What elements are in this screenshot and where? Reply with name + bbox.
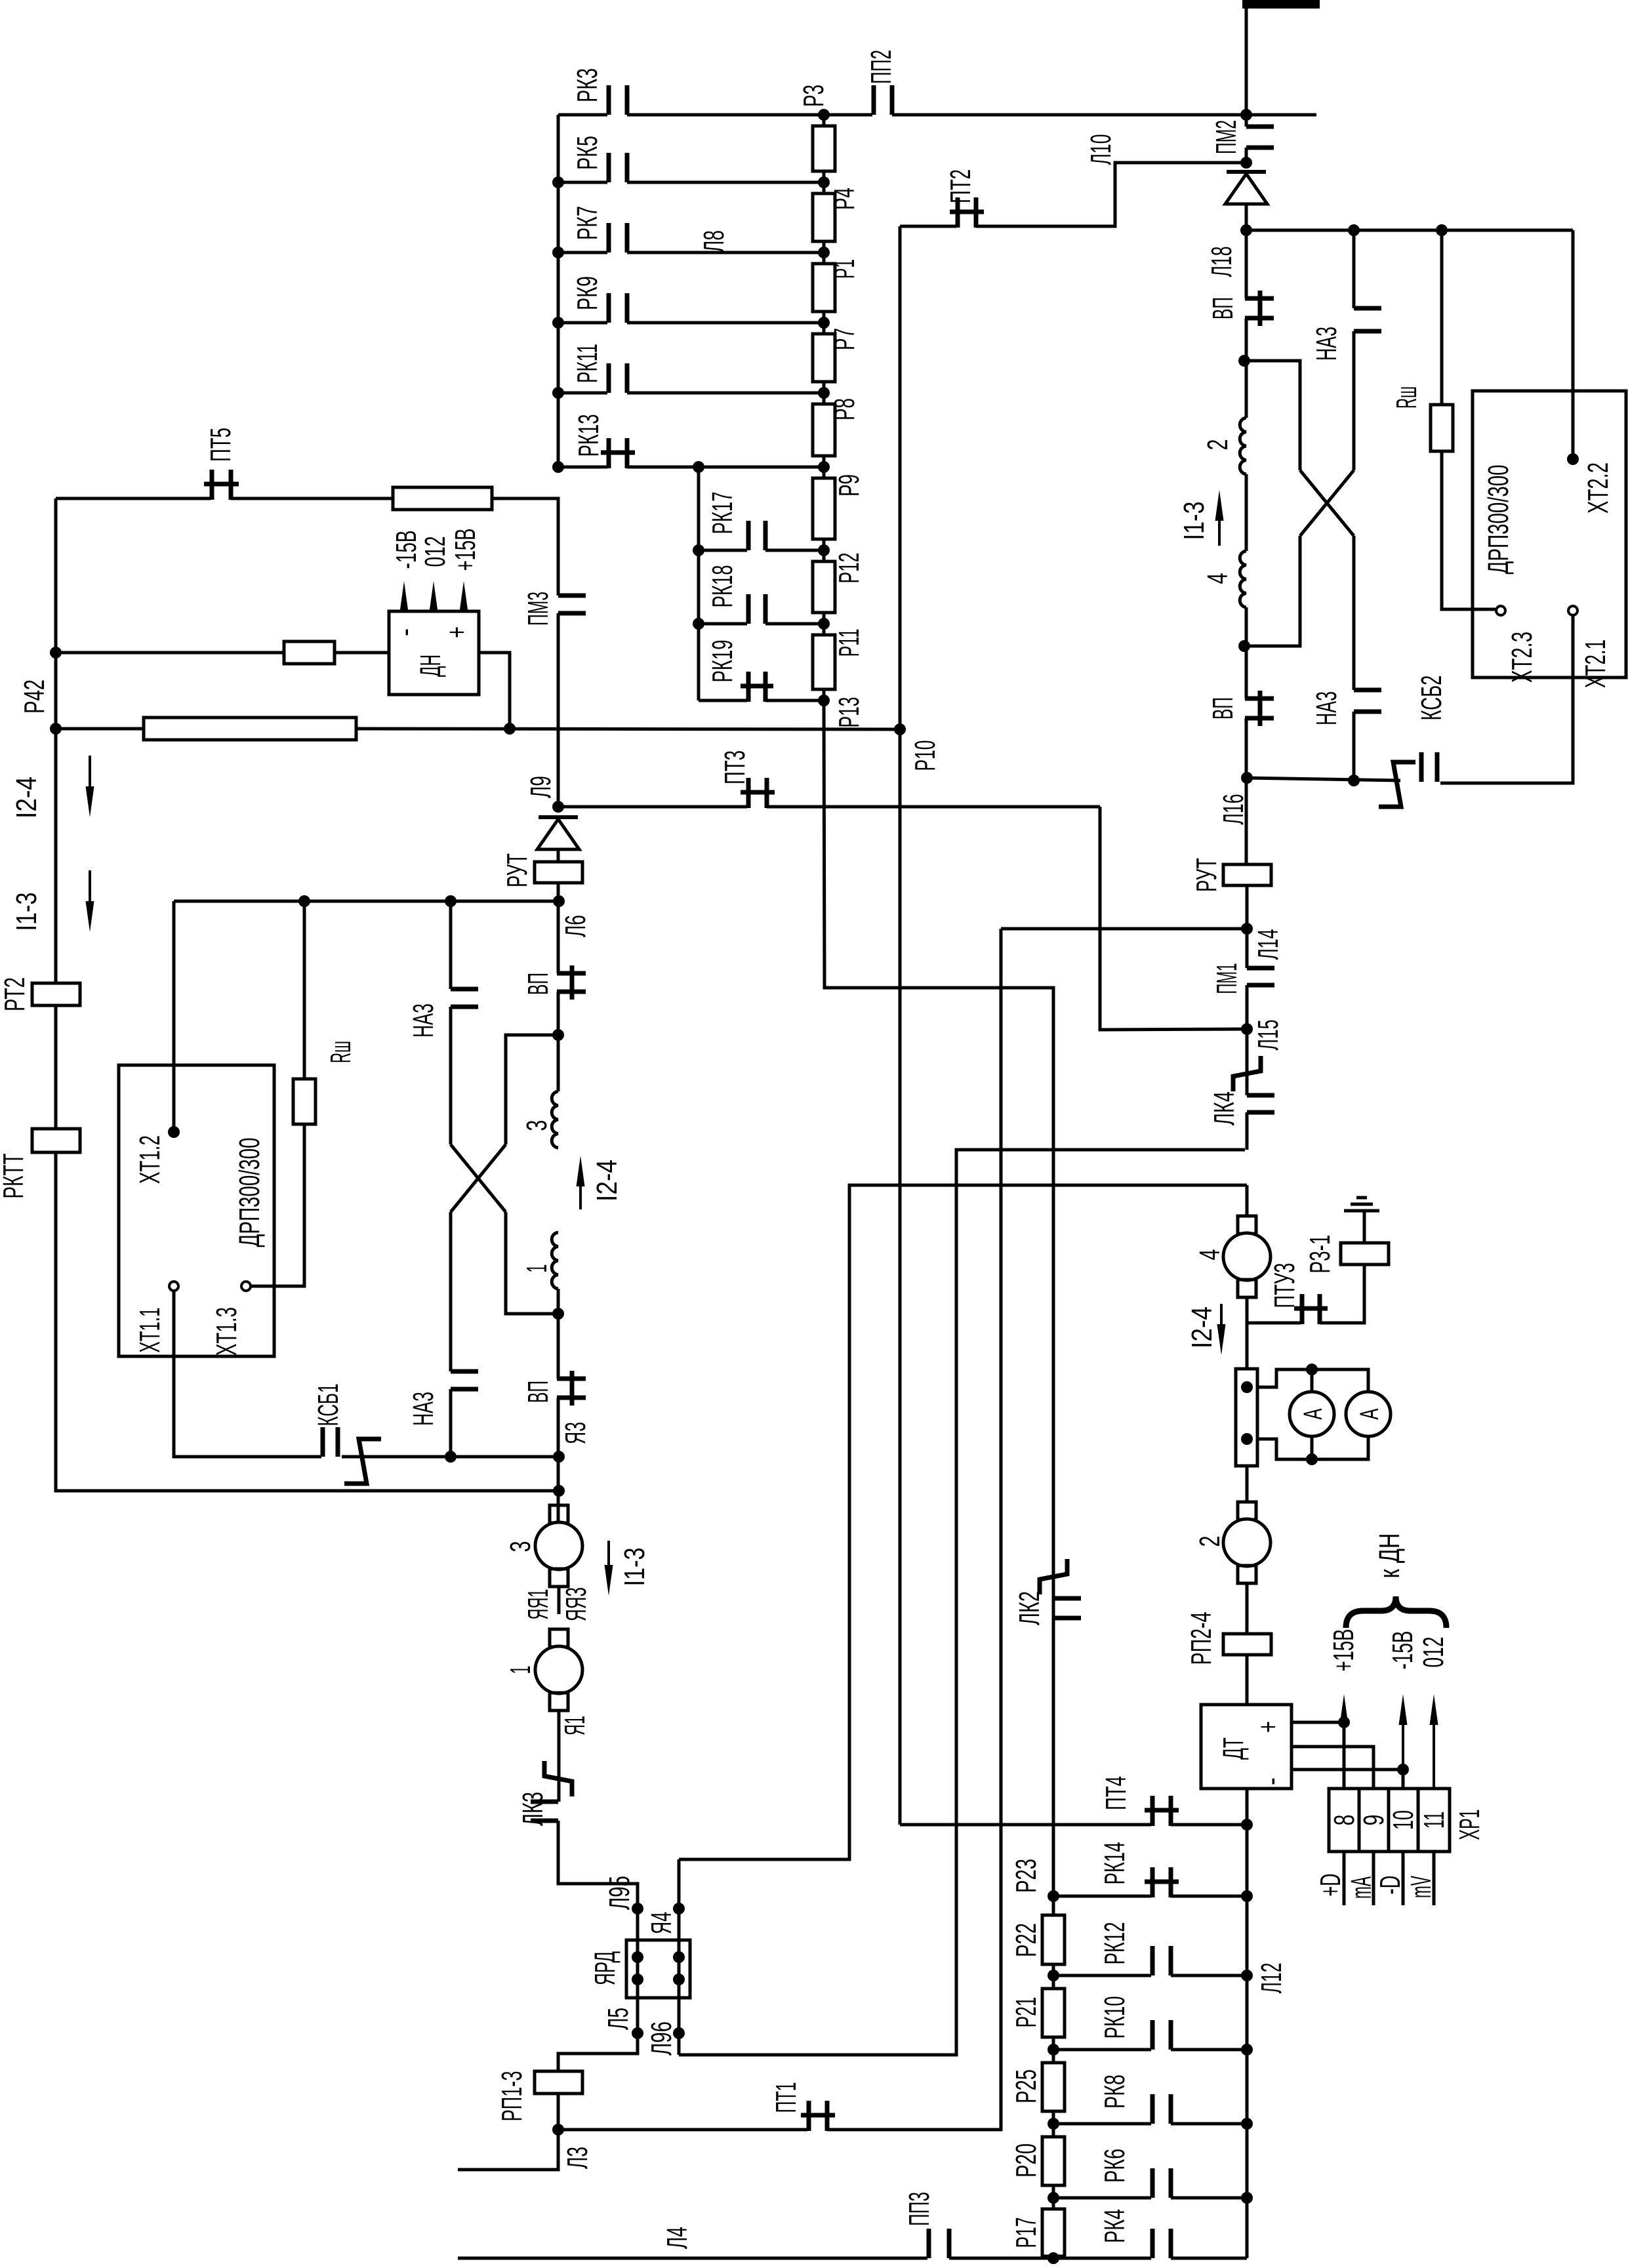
svg-text:mV: mV bbox=[1405, 1876, 1437, 1898]
node chain РК7 bbox=[818, 247, 830, 258]
svg-text:-15В: -15В bbox=[1387, 1631, 1419, 1670]
svg-text:2: 2 bbox=[1194, 1536, 1226, 1547]
node Я3 bus join bbox=[553, 1485, 565, 1497]
svg-text:I1-3: I1-3 bbox=[10, 893, 43, 931]
wire Я4 riser to motor 4 bbox=[679, 1185, 1247, 1859]
wire Rш to ХТ2.3 bbox=[1442, 451, 1498, 609]
resistor Р4 bbox=[813, 193, 835, 241]
wire ЛК4 out bbox=[1246, 1112, 1249, 1150]
node ammeter 1 top bbox=[1306, 1364, 1318, 1375]
wire bottom bus middle bbox=[949, 2257, 1151, 2260]
arrow I1-3 (left) bbox=[89, 870, 91, 910]
wire branch to X right bbox=[1244, 361, 1300, 470]
node НА3 right top bbox=[1348, 224, 1360, 236]
divider ХР1 b bbox=[1387, 1789, 1391, 1852]
resistor Р21 bbox=[1042, 1989, 1065, 2037]
wire chain seg b bbox=[1052, 1964, 1055, 1989]
node winding branch bottom bbox=[552, 1308, 564, 1320]
svg-text:РК3: РК3 bbox=[571, 68, 603, 102]
svg-text:ПП3: ПП3 bbox=[903, 2192, 935, 2226]
ammeter A2 bbox=[1346, 1392, 1391, 1436]
svg-text:-: - bbox=[1255, 1777, 1288, 1785]
terminal ХТ2.1 bbox=[1568, 606, 1577, 615]
svg-text:РК9: РК9 bbox=[571, 276, 603, 310]
svg-text:ХР1: ХР1 bbox=[1454, 1810, 1486, 1840]
coil РТ2 bbox=[32, 983, 80, 1005]
contact РК6 bbox=[1152, 2168, 1171, 2198]
node Л96 bbox=[673, 2027, 685, 2039]
svg-text:I1-3: I1-3 bbox=[619, 1548, 651, 1587]
wire pin 9 out bbox=[1372, 1852, 1375, 1905]
svg-text:ПТ2: ПТ2 bbox=[945, 169, 977, 203]
Z-mark КСБ1 bbox=[344, 1439, 381, 1484]
svg-text:I1-3: I1-3 bbox=[1178, 502, 1210, 540]
svg-text:Р1: Р1 bbox=[828, 259, 861, 279]
wire ПТ4 rung right bbox=[1171, 1823, 1247, 1827]
wire rung РК18 right bbox=[765, 622, 824, 626]
resistor Р3 bbox=[813, 126, 835, 171]
wire rung РК5 left bbox=[558, 181, 607, 184]
wire shunt bottom to ammeters bbox=[1257, 1436, 1368, 1459]
wire to motor 4 bbox=[1246, 1185, 1249, 1216]
divider ХР1 c bbox=[1417, 1789, 1420, 1852]
svg-text:+15В: +15В bbox=[1328, 1629, 1360, 1672]
svg-text:ПМ3: ПМ3 bbox=[522, 592, 554, 626]
svg-text:РК19: РК19 bbox=[706, 640, 739, 683]
wire Л96 riser to ЛК4 bbox=[679, 1150, 1245, 2055]
node Р10 tap bbox=[894, 723, 906, 735]
wire ПТ2 left bbox=[900, 225, 956, 228]
wire ПТ5 rung left bbox=[56, 497, 211, 500]
svg-text:10: 10 bbox=[1387, 1810, 1419, 1830]
node chain РК3 bbox=[818, 109, 830, 121]
wire РК6 rung left bbox=[1053, 2197, 1151, 2200]
node Rш top bbox=[298, 895, 310, 907]
wire ЛК3 to ЯРД left and РП1-3 bbox=[558, 1821, 638, 2071]
svg-text:-15В: -15В bbox=[390, 531, 422, 569]
svg-text:РТ2: РТ2 bbox=[0, 977, 31, 1011]
contact РК14 bbox=[1145, 1867, 1179, 1897]
svg-text:+: + bbox=[1252, 1721, 1284, 1733]
wire bottom bus right bbox=[1171, 2257, 1247, 2260]
wire ДТ out1 bbox=[1292, 1721, 1344, 1724]
contact ЛК4 bbox=[1247, 1095, 1274, 1112]
contact ВП (left lower) bbox=[557, 1371, 586, 1406]
arrow I2-4 (left) bbox=[89, 756, 91, 795]
node ПТ4 bbox=[1241, 1819, 1253, 1831]
svg-text:ДН: ДН bbox=[415, 655, 447, 677]
svg-text:НА3: НА3 bbox=[1311, 327, 1343, 361]
node +15В tap bbox=[1338, 1716, 1350, 1728]
svg-text:РУТ: РУТ bbox=[501, 853, 533, 887]
svg-text:Р3: Р3 bbox=[798, 85, 830, 107]
wire diode to ВП bbox=[1245, 204, 1248, 298]
wire rung РК18 left bbox=[699, 622, 747, 626]
svg-text:Р10: Р10 bbox=[909, 740, 941, 771]
svg-text:Л10: Л10 bbox=[1085, 134, 1117, 165]
contact ПП2 bbox=[874, 85, 892, 115]
wire rung РК3 right bbox=[627, 113, 824, 117]
svg-text:ХТ2.1: ХТ2.1 bbox=[1579, 639, 1612, 688]
svg-text:ВП: ВП bbox=[522, 1381, 554, 1403]
wire ПП2 to right end bbox=[892, 113, 1316, 117]
wire НА3 lower to Л16 wire bbox=[1353, 712, 1356, 780]
svg-text:Р13: Р13 bbox=[833, 697, 865, 728]
wire chain bottom to ЛК2 riser bbox=[824, 700, 1053, 1896]
wire ПМ1 to ЛК4 bbox=[1246, 985, 1249, 1095]
contact РК11 bbox=[609, 363, 627, 393]
node top feeder bbox=[1240, 109, 1252, 121]
inductor winding 4 bbox=[1240, 551, 1246, 607]
wire ВП to coil 2 bbox=[1245, 318, 1248, 418]
wire ХТ1.1 to КСБ1 bbox=[174, 1291, 321, 1457]
wire Л14 to riser bbox=[1001, 927, 1247, 931]
contact РК10 bbox=[1152, 2020, 1171, 2050]
wire rung РК11 left bbox=[558, 392, 607, 395]
wire ДТ out3 bbox=[1292, 1768, 1403, 1772]
wire to A1 top bbox=[1311, 1369, 1314, 1392]
svg-text:ВП: ВП bbox=[1207, 697, 1239, 719]
svg-text:Р42: Р42 bbox=[18, 679, 51, 714]
wire НА3 to X bbox=[449, 1007, 453, 1144]
svg-text:4: 4 bbox=[1194, 1249, 1226, 1261]
svg-text:ПТ3: ПТ3 bbox=[719, 750, 751, 784]
wire rung РК7 right bbox=[627, 251, 824, 254]
node chain bottom bbox=[1048, 2252, 1059, 2264]
wire shunt top to ammeters bbox=[1257, 1369, 1368, 1392]
wire ВП to coil 3 bbox=[557, 992, 560, 1091]
wire ПМ2 to Л10 node bbox=[1245, 148, 1248, 163]
node РК6 chain bbox=[1048, 2192, 1059, 2204]
wire rung РК13 right bbox=[627, 466, 824, 469]
svg-text:ПТУ3: ПТУ3 bbox=[1269, 1263, 1301, 1308]
svg-text:РК12: РК12 bbox=[1099, 1922, 1131, 1965]
wire НА3 lower to КСБ1 wire bbox=[449, 1389, 453, 1457]
svg-text:РК18: РК18 bbox=[706, 565, 739, 608]
svg-text:-D: -D bbox=[1374, 1876, 1406, 1895]
node winding branch top (right) bbox=[1238, 355, 1250, 367]
node chain РК11 bbox=[818, 387, 830, 399]
svg-text:ПП2: ПП2 bbox=[865, 50, 897, 84]
wire ЯРД right through bbox=[678, 1859, 681, 2055]
svg-text:РК11: РК11 bbox=[571, 344, 603, 383]
wire branch to X left bbox=[506, 1035, 558, 1144]
divider ХР1 a bbox=[1358, 1789, 1361, 1852]
Z-mark ЛК2 bbox=[1040, 1559, 1067, 1594]
wire ПТ3 right bbox=[767, 805, 1100, 809]
svg-text:РК17: РК17 bbox=[706, 492, 739, 535]
wire left bus Р42 down and bottom run to Я3 bbox=[56, 498, 559, 1491]
contact ПТ1 bbox=[801, 2101, 835, 2131]
svg-text:9: 9 bbox=[1358, 1815, 1390, 1826]
wire rung РК13 left bbox=[558, 466, 607, 469]
contact ЛК3 bbox=[531, 1802, 558, 1821]
svg-text:ЛК2: ЛК2 bbox=[1013, 1591, 1046, 1625]
svg-text:Р17: Р17 bbox=[1010, 2217, 1042, 2248]
contact ПТ2 bbox=[950, 197, 984, 228]
svg-text:3: 3 bbox=[521, 1120, 553, 1131]
node РК8 bbox=[1241, 2118, 1253, 2130]
node ДН plus join bbox=[504, 723, 516, 735]
contact КСБ2 bbox=[1421, 752, 1437, 782]
wire winding 2 to winding 4 bbox=[1245, 474, 1248, 551]
wire РУТ to ПМ1 bbox=[1246, 885, 1249, 968]
node winding branch top bbox=[552, 1029, 564, 1041]
svg-text:Л4: Л4 bbox=[661, 2227, 693, 2249]
motor armature 3 (ЯЯ1-ЯЯ3) bbox=[550, 1505, 568, 1523]
wire НА3 to X (right) bbox=[1353, 331, 1356, 470]
node ЯРД left inner 1 bbox=[632, 1951, 643, 1963]
svg-text:ХТ2.2: ХТ2.2 bbox=[1582, 462, 1614, 514]
wire КСБ1 to Я3 bbox=[342, 1455, 559, 1459]
contact ПТУ3 bbox=[1294, 1294, 1328, 1324]
svg-text:НА3: НА3 bbox=[407, 1392, 439, 1426]
node shunt top tap bbox=[1241, 1381, 1253, 1393]
svg-text:1: 1 bbox=[521, 1265, 553, 1273]
svg-text:Р12: Р12 bbox=[833, 553, 865, 584]
resistor Р8 bbox=[813, 404, 835, 456]
wire rung РК11 right bbox=[627, 392, 824, 395]
wire Р42 tap to long resistor bbox=[56, 727, 144, 731]
wire Л18 to ХТ2.2 bbox=[1246, 229, 1573, 232]
svg-text:КСБ2: КСБ2 bbox=[1415, 676, 1448, 721]
resistor (stabilizing) on ПТ5 wire bbox=[393, 487, 492, 510]
node РК17 bbox=[693, 544, 704, 556]
wire ПТ1 to Л14 riser bbox=[827, 929, 1001, 2130]
coil РП1-3 bbox=[535, 2071, 582, 2094]
wire ДТ to bottom bus bbox=[1246, 1789, 1249, 2258]
wire bottom bus left bbox=[458, 2257, 927, 2260]
resistor Р7 bbox=[813, 334, 835, 382]
motor armature 2 bbox=[1238, 1502, 1256, 1520]
svg-text:Р11: Р11 bbox=[833, 629, 865, 657]
resistor (long) on Р42 wire bbox=[144, 718, 356, 740]
svg-text:Rш: Rш bbox=[325, 1041, 357, 1063]
node РК12 bbox=[1241, 1970, 1253, 1981]
node РК14 bbox=[1241, 1890, 1253, 1902]
wire РУТ to ВП bbox=[557, 883, 560, 973]
svg-text:ВП: ВП bbox=[1207, 297, 1239, 319]
svg-text:-: - bbox=[389, 628, 421, 636]
motor armature 4 bbox=[1238, 1216, 1256, 1234]
svg-text:+: + bbox=[441, 626, 473, 638]
node Л16 bbox=[1241, 772, 1253, 784]
contact РК17 bbox=[748, 521, 765, 550]
svg-text:НА3: НА3 bbox=[407, 1003, 439, 1038]
svg-text:ХТ1.3: ХТ1.3 bbox=[211, 1307, 243, 1356]
node chain РК13 bbox=[818, 461, 830, 473]
wire Л6 to НА3 upper bbox=[449, 901, 453, 989]
wire РК10 rung left bbox=[1053, 2048, 1151, 2052]
contact ВП (right lower) bbox=[1245, 691, 1274, 726]
ground bbox=[1344, 1198, 1379, 1211]
node Л18 bbox=[1240, 224, 1252, 236]
block ДРП300/300 (ХТ1) bbox=[119, 1065, 274, 1356]
svg-text:Л15: Л15 bbox=[1252, 1020, 1284, 1051]
resistor Р1 bbox=[813, 264, 835, 312]
wire РК12 rung right bbox=[1171, 1974, 1247, 1977]
wire Л8 column down bbox=[697, 467, 701, 700]
wire Л18 to Rш bbox=[1440, 230, 1444, 405]
node Л15 bbox=[1241, 1023, 1253, 1035]
svg-text:Л95: Л95 bbox=[603, 1876, 636, 1910]
node Я4 bbox=[673, 1903, 685, 1914]
arrow -15В bbox=[1402, 1716, 1404, 1770]
svg-text:+15В: +15В bbox=[449, 529, 481, 571]
terminal ХТ1.1 bbox=[169, 1282, 178, 1291]
contact ВП (left top) bbox=[557, 965, 586, 1000]
brace к ДН bbox=[1346, 1596, 1446, 1628]
wire X to node below winding 4 bbox=[1244, 536, 1300, 646]
wire X to node below winding 1 bbox=[506, 1212, 558, 1314]
coil РУТ (right) bbox=[1223, 864, 1271, 885]
svg-text:Л5: Л5 bbox=[602, 2008, 634, 2030]
contact РК7 bbox=[609, 223, 627, 253]
svg-text:РУТ: РУТ bbox=[1190, 858, 1223, 892]
crossover X of right winding group bbox=[1300, 470, 1354, 536]
svg-text:Л8: Л8 bbox=[698, 230, 730, 253]
contact НА3 (right lower) bbox=[1354, 690, 1381, 712]
contact ЛК2 bbox=[1053, 1598, 1081, 1618]
svg-text:I2-4: I2-4 bbox=[591, 1160, 623, 1202]
arrow 012 output of ДН bbox=[432, 603, 435, 611]
coil РП2-4 bbox=[1223, 1634, 1271, 1655]
node bus РК7 bbox=[552, 247, 564, 258]
svg-text:к ДН: к ДН bbox=[1374, 1533, 1406, 1579]
node РК8 chain bbox=[1048, 2118, 1059, 2130]
svg-text:012: 012 bbox=[419, 537, 451, 567]
resistor Р20 bbox=[1042, 2137, 1065, 2185]
svg-text:Р23: Р23 bbox=[1010, 1859, 1042, 1893]
block ДН bbox=[389, 611, 479, 695]
node Л9 bbox=[552, 801, 564, 813]
svg-text:А: А bbox=[1355, 1408, 1384, 1419]
resistor Rш (left) bbox=[293, 1079, 315, 1124]
resistor Р11 bbox=[813, 635, 835, 689]
wire ПТ4 rung left bbox=[900, 1823, 1151, 1827]
svg-text:mA: mA bbox=[1345, 1876, 1377, 1899]
wire ДН plus output bbox=[479, 653, 510, 729]
contact РК13 bbox=[601, 438, 635, 468]
node shunt bottom tap bbox=[1241, 1433, 1253, 1445]
svg-text:ЯЯ3: ЯЯ3 bbox=[560, 1587, 592, 1621]
contact НА3 (left lower) bbox=[451, 1371, 478, 1389]
arrow I2-4 (winding) bbox=[579, 1178, 582, 1209]
wire rung РК17 right bbox=[765, 549, 824, 552]
svg-text:1: 1 bbox=[504, 1666, 537, 1674]
wire resistor chain spine bbox=[823, 115, 826, 700]
contact ПТ4 bbox=[1145, 1796, 1179, 1826]
arrow I1-3 (winding) bbox=[1218, 512, 1221, 546]
contact ПМ3 bbox=[558, 596, 586, 613]
wire ВП to РУТ right bbox=[1245, 718, 1248, 864]
wire Л9 to ПТ3 bbox=[558, 805, 747, 809]
svg-text:Л9: Л9 bbox=[525, 776, 557, 798]
wire РК10 rung right bbox=[1171, 2048, 1247, 2052]
svg-text:ПТ5: ПТ5 bbox=[205, 428, 237, 462]
node РК10 chain bbox=[1048, 2044, 1059, 2055]
wire ДТ out2 to pin 9 bbox=[1292, 1747, 1374, 1789]
wire chain seg f bbox=[1052, 2256, 1055, 2258]
wire long resistor to Р10 line bbox=[356, 729, 900, 729]
svg-text:Л14: Л14 bbox=[1252, 929, 1284, 960]
wire ПТ2 to Л10 bbox=[976, 163, 1246, 226]
svg-text:ЯЯ1: ЯЯ1 bbox=[522, 1589, 554, 1620]
contact ВП (right top) bbox=[1245, 291, 1274, 326]
wire pin 10 out bbox=[1402, 1852, 1405, 1905]
node bus РК13 bbox=[552, 461, 564, 473]
contact НА3 (right upper) bbox=[1354, 308, 1381, 331]
node ЯРД left inner 2 bbox=[632, 1974, 643, 1985]
wire X to НА3 lower (right) bbox=[1353, 536, 1356, 690]
wire ВП to motor ЯЯ bbox=[557, 1398, 560, 1522]
arrow +15В output of ДН bbox=[462, 603, 465, 611]
contact ПТ5 bbox=[204, 470, 239, 500]
terminal ХТ2.3 bbox=[1496, 606, 1505, 615]
svg-text:РК14: РК14 bbox=[1099, 1842, 1131, 1885]
svg-text:ЛК4: ЛК4 bbox=[1208, 1091, 1240, 1125]
wire ПТУ3 left bbox=[1247, 1322, 1301, 1325]
wire rung1 to ПП2 bbox=[824, 113, 872, 117]
svg-text:РК10: РК10 bbox=[1099, 1996, 1131, 2039]
wire pin 8 out bbox=[1343, 1852, 1346, 1905]
coil РУТ (left) bbox=[535, 862, 582, 883]
resistor Р17 bbox=[1042, 2209, 1065, 2256]
node Л10 bbox=[1240, 157, 1252, 169]
contact НА3 (left upper) bbox=[451, 989, 478, 1007]
Z-mark ЛК4 bbox=[1233, 1056, 1261, 1091]
contact РК19 bbox=[741, 672, 773, 702]
wire chain seg a bbox=[1052, 1896, 1055, 1915]
svg-text:Р9: Р9 bbox=[833, 474, 865, 496]
svg-text:РП1-3: РП1-3 bbox=[496, 2071, 528, 2122]
node Л6 bbox=[553, 895, 565, 907]
svg-text:Р3-1: Р3-1 bbox=[1304, 1235, 1336, 1274]
wire rung РК7 left bbox=[558, 251, 607, 254]
svg-text:8: 8 bbox=[1328, 1815, 1360, 1826]
svg-text:Л3: Л3 bbox=[561, 2147, 594, 2169]
svg-text:Л12: Л12 bbox=[1255, 1963, 1288, 1994]
node -15В tap bbox=[1397, 1764, 1409, 1775]
contact ПМ1 bbox=[1247, 968, 1274, 985]
svg-text:ДРП300/300: ДРП300/300 bbox=[234, 1138, 266, 1247]
inductor winding 3 bbox=[552, 1091, 558, 1148]
contact РК9 bbox=[609, 293, 627, 323]
ammeter A1 bbox=[1290, 1392, 1334, 1436]
wire РК6 rung right bbox=[1171, 2197, 1247, 2200]
svg-text:РП2-4: РП2-4 bbox=[1185, 1612, 1217, 1665]
node НА3 top bbox=[445, 895, 457, 907]
svg-text:РК5: РК5 bbox=[571, 136, 603, 170]
wire РП1-3 to Л3 stub bbox=[458, 2094, 558, 2170]
node wire2 tap bbox=[50, 723, 62, 735]
wire Л16 to КСБ2 bbox=[1247, 778, 1400, 780]
svg-text:РК8: РК8 bbox=[1099, 2075, 1131, 2109]
node НА3 join (right) bbox=[1348, 775, 1360, 786]
wire rung РК9 right bbox=[627, 321, 824, 325]
svg-text:РК6: РК6 bbox=[1099, 2149, 1131, 2183]
resistor Rш (right) bbox=[1431, 405, 1453, 451]
node Л95 bbox=[632, 1903, 643, 1914]
svg-text:ЯРД: ЯРД bbox=[589, 1951, 621, 1985]
contact ПТ3 bbox=[741, 778, 775, 808]
node bus РК11 bbox=[552, 387, 564, 399]
terminal ХТ1.3 bbox=[241, 1282, 251, 1291]
Z-mark КСБ2 bbox=[1379, 762, 1415, 807]
node Р11 bbox=[818, 618, 830, 630]
svg-text:ПТ4: ПТ4 bbox=[1100, 1776, 1132, 1810]
node РК6 bbox=[1241, 2192, 1253, 2204]
